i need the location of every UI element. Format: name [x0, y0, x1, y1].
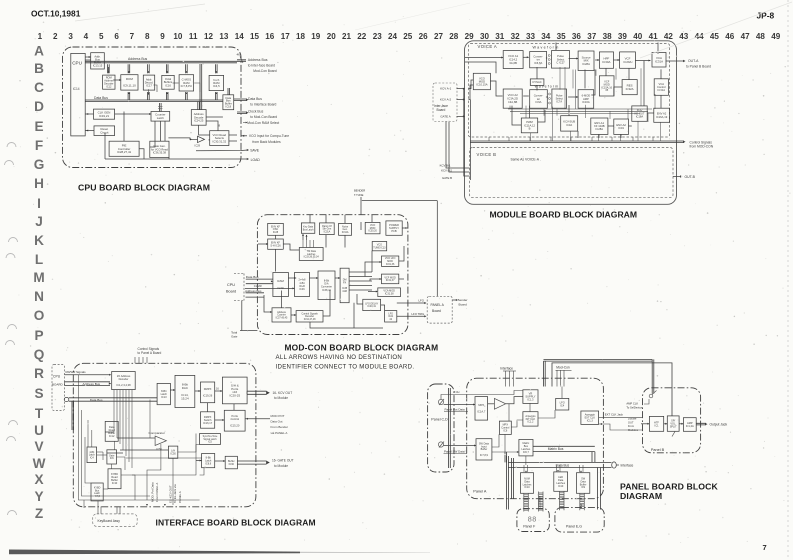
panel amp: [683, 418, 696, 432]
svg-text:IC34,47,48: IC34,47,48: [304, 318, 316, 321]
VCA control: [654, 79, 668, 96]
ribbon cable NUM to Panel F: [524, 493, 529, 511]
8-bit latch: [157, 383, 170, 404]
svg-text:12: 12: [204, 32, 214, 41]
counter latch: [151, 112, 170, 122]
svg-text:11: 11: [189, 32, 198, 41]
4-bit latch: [87, 447, 97, 463]
control signals decoder: [296, 311, 323, 322]
svg-text:LOAD: LOAD: [251, 158, 261, 162]
svg-text:IC10,15A: IC10,15A: [476, 83, 487, 87]
svg-text:via PANEL A: via PANEL A: [271, 431, 288, 435]
svg-text:49: 49: [771, 32, 781, 41]
svg-text:IC1,3: IC1,3: [587, 420, 594, 423]
svg-text:To SelDevice: To SelDevice: [626, 406, 642, 410]
svg-text:43: 43: [679, 32, 689, 41]
DYNAC: [530, 79, 544, 86]
svg-text:C: C: [34, 80, 44, 95]
SW data input buffer: [476, 439, 492, 460]
svg-text:8: 8: [219, 124, 221, 128]
svg-text:30: 30: [480, 32, 490, 41]
punch hole arcs left edge: [7, 143, 16, 148]
8-bit latch2 wires: [196, 460, 202, 462]
svg-text:IC1A,7: IC1A,7: [477, 409, 486, 413]
svg-text:Waveform: Waveform: [535, 85, 560, 89]
VR supply: [523, 390, 538, 404]
clock generator: [94, 109, 115, 119]
svg-text:IC6: IC6: [110, 457, 115, 460]
svg-text:Panel F: Panel F: [523, 525, 535, 529]
pulse select 1: [552, 51, 570, 69]
ENV KE OUT: [632, 106, 647, 121]
Voice B dashed box: [470, 148, 674, 198]
VCO MOD modcon: [365, 222, 380, 233]
svg-text:IC5: IC5: [208, 441, 212, 444]
OUT-A arrow: [666, 60, 684, 62]
svg-text:MOD-CON BOARD BLOCK DIAGRAM: MOD-CON BOARD BLOCK DIAGRAM: [285, 342, 439, 352]
svg-text:PANEL A: PANEL A: [431, 303, 445, 307]
svg-text:IC10: IC10: [558, 485, 564, 488]
svg-text:1: 1: [38, 32, 43, 41]
svg-text:Gate: Gate: [231, 334, 238, 338]
svg-text:Mod-Con: Mod-Con: [556, 365, 570, 369]
pot wire: [444, 404, 475, 406]
svg-text:VOICE B: VOICE B: [477, 152, 497, 157]
svg-text:19: 19: [311, 32, 321, 41]
svg-text:35: 35: [557, 32, 567, 41]
svg-text:IC31A: IC31A: [324, 230, 331, 233]
6-mod amp: [578, 90, 594, 109]
CPU IC14: [71, 53, 85, 135]
split switch mark: [672, 432, 675, 437]
MPX: [475, 397, 488, 421]
Module board outline: [465, 41, 677, 205]
counter decoder wires: [281, 291, 283, 308]
Panel E,G outline: [555, 507, 604, 532]
Panel A outline: [467, 378, 604, 499]
cpu right exit data bus: [237, 99, 247, 101]
ENV KF S-H: [268, 239, 284, 249]
svg-text:V: V: [34, 439, 43, 454]
ribbon cable LED to Panel E,G: [560, 491, 565, 510]
svg-text:IC31,38: IC31,38: [385, 293, 394, 296]
svg-text:3A,6B: 3A,6B: [509, 61, 517, 65]
svg-text:IC15,20: IC15,20: [230, 423, 240, 427]
ROM address decoder: [103, 75, 115, 89]
address decoder IC17: [143, 75, 154, 90]
CPU board dashed bracket: [234, 273, 244, 275]
data bus pipe: [508, 462, 612, 467]
svg-text:T.TUNE: T.TUNE: [354, 193, 364, 197]
DMPX switch: [201, 412, 215, 428]
bottom edge exit arrows: [146, 504, 148, 506]
wire bender t.tune across to panel A: [362, 200, 438, 202]
address decoder IC24: [191, 110, 206, 126]
power supply out: [402, 227, 408, 229]
svg-text:IC3A: IC3A: [566, 123, 572, 127]
svg-text:88: 88: [528, 515, 537, 524]
svg-text:C IC27: C IC27: [556, 61, 565, 65]
svg-text:MOD. Pot Data: MOD. Pot Data: [151, 482, 155, 502]
key data latch: [301, 223, 314, 233]
svg-text:IC1,3: IC1,3: [527, 398, 534, 402]
2ch wire to VR supply: [441, 391, 523, 400]
KCV input dashed box: [433, 83, 457, 122]
sw wire: [444, 445, 476, 447]
16-gate out pipe arrow: [237, 461, 266, 464]
cpu right exit clock bus: [237, 112, 247, 114]
arpeggio int clk: [523, 412, 538, 426]
address bus: [85, 61, 237, 63]
pulse select 2: [552, 89, 567, 108]
svg-text:Panel B: Panel B: [651, 448, 665, 452]
svg-text:20: 20: [327, 32, 337, 41]
svg-text:2 CH: 2 CH: [454, 390, 460, 394]
svg-text:Interface: Interface: [621, 464, 634, 468]
interface connector right: [612, 462, 617, 468]
modcon right wires: [399, 246, 404, 261]
svg-text:38: 38: [603, 32, 613, 41]
counter latch wires: [160, 103, 162, 112]
svg-text:A: A: [34, 43, 44, 58]
svg-text:E: E: [34, 119, 43, 134]
svg-text:13A,6B: 13A,6B: [508, 100, 517, 104]
ENV KF OSC: [268, 223, 284, 235]
svg-text:IC32A: IC32A: [626, 87, 634, 91]
svg-text:U: U: [34, 423, 44, 438]
MPX control: [499, 421, 511, 434]
panel B wires: [664, 423, 668, 425]
matrix bus pipe: [533, 446, 595, 451]
vol split: [667, 416, 679, 431]
svg-text:IC18: IC18: [226, 105, 232, 109]
matrix bus latches: [519, 440, 533, 456]
svg-text:IC30,31,32: IC30,31,32: [212, 139, 226, 143]
PIE controller: [109, 141, 139, 156]
svg-text:GATE B: GATE B: [442, 176, 452, 180]
voice A verticals to control bus: [488, 137, 490, 141]
KCV B wires: [446, 122, 470, 169]
svg-text:IC4: IC4: [90, 456, 94, 459]
modcon ENV KF S-H left entry: [258, 243, 268, 245]
svg-text:IC12: IC12: [109, 434, 115, 438]
svg-text:IC28A: IC28A: [596, 127, 604, 131]
svg-text:LFO: LFO: [419, 299, 425, 303]
module vertical drops: [509, 106, 511, 109]
svg-text:W: W: [33, 456, 46, 471]
svg-text:7: 7: [130, 32, 135, 41]
svg-text:IC20-25: IC20-25: [229, 394, 240, 398]
svg-text:IC6: IC6: [503, 430, 508, 433]
svg-text:N: N: [34, 289, 44, 304]
svg-text:B: B: [529, 126, 531, 130]
TM data latches: [299, 248, 323, 261]
VCO tune: [372, 242, 387, 251]
svg-text:MPX: MPX: [478, 403, 484, 407]
svg-text:39: 39: [618, 32, 628, 41]
svg-text:IC29A: IC29A: [623, 60, 631, 64]
cpu to addr buffer link: [85, 56, 91, 58]
Panel F outline: [517, 509, 549, 532]
svg-text:21: 21: [342, 32, 352, 41]
svg-text:IC4: IC4: [560, 404, 565, 408]
long vertical pair through row: [200, 64, 202, 110]
svg-text:BENDER: BENDER: [354, 188, 365, 192]
vco read select wires: [168, 138, 190, 139]
ENV-A2: [614, 119, 629, 134]
control signals bus: [470, 141, 684, 143]
svg-text:G: G: [34, 157, 45, 172]
svg-text:IC28,27,41: IC28,27,41: [117, 150, 132, 154]
bottom scan shadow bar: [9, 550, 300, 555]
svg-text:5: 5: [99, 32, 104, 41]
svg-text:31: 31: [495, 32, 505, 41]
svg-text:34: 34: [541, 32, 551, 41]
svg-text:KCV B-2: KCV B-2: [441, 169, 452, 173]
svg-text:DMPX: DMPX: [204, 387, 212, 391]
decoder output fan: [113, 390, 115, 432]
svg-text:VCO Input for Compu-Tune: VCO Input for Compu-Tune: [249, 134, 289, 138]
S/H ports: [222, 377, 247, 404]
svg-text:CPU: CPU: [53, 375, 61, 379]
waveform converter 2: [530, 90, 548, 109]
panel CD internal bus: [449, 388, 451, 468]
svg-text:IC16A,19: IC16A,19: [656, 115, 668, 119]
svg-text:IC1: IC1: [654, 423, 659, 427]
rom addr decoder link: [107, 67, 109, 73]
svg-text:IC7A: IC7A: [556, 100, 562, 104]
svg-text:IC7,8,PU: IC7,8,PU: [181, 84, 192, 88]
svg-text:ALL ARROWS HAVING NO DESTINATI: ALL ARROWS HAVING NO DESTINATION: [276, 354, 403, 361]
svg-text:IC13,15: IC13,15: [93, 63, 103, 67]
svg-text:IC19,21: IC19,21: [99, 114, 110, 118]
svg-text:VOICE A: VOICE A: [478, 44, 498, 49]
bottom rail: [105, 158, 241, 160]
svg-text:PX: PX: [343, 282, 347, 285]
svg-text:From PANEL A: From PANEL A: [155, 483, 159, 502]
svg-text:13: 13: [219, 32, 229, 41]
svg-text:From Bender: From Bender: [271, 425, 289, 429]
svg-text:16: 16: [216, 388, 219, 391]
svg-text:42: 42: [664, 32, 674, 41]
waveform converter 1: [530, 52, 547, 68]
extra keyboard section wires: [85, 437, 91, 483]
panel amp triangle: [494, 398, 505, 409]
svg-text:41M: 41M: [342, 290, 347, 293]
16-KCV out pipe arrow: [247, 391, 266, 394]
mod pot data in: [245, 418, 270, 420]
svg-text:KeyBoard Assy: KeyBoard Assy: [98, 519, 121, 523]
svg-text:Q: Q: [34, 347, 45, 362]
DMPX interface: [201, 382, 215, 403]
8-bit DA converter: [318, 271, 335, 300]
svg-text:37: 37: [587, 32, 597, 41]
svg-text:45: 45: [710, 32, 720, 41]
svg-text:26: 26: [419, 32, 429, 41]
KYBD read buffer: [108, 469, 121, 489]
svg-text:8: 8: [145, 32, 150, 41]
svg-text:CPU BOARD BLOCK DIAGRAM: CPU BOARD BLOCK DIAGRAM: [78, 183, 210, 193]
svg-text:Waveform: Waveform: [533, 46, 560, 50]
svg-text:IC4,5: IC4,5: [213, 84, 220, 88]
svg-text:KCV A-1: KCV A-1: [440, 87, 451, 91]
LED data latches: [554, 472, 568, 491]
svg-text:PANEL A: PANEL A: [178, 491, 182, 503]
modcon data bus pipe entry: [246, 279, 273, 284]
right edge scan line: [787, 0, 789, 560]
VCF MOD modcon: [382, 274, 399, 284]
svg-text:Board: Board: [459, 303, 468, 307]
interface address bus pipe: [65, 382, 111, 386]
svg-text:46: 46: [237, 53, 241, 57]
interface internal verticals: [149, 400, 151, 439]
svg-text:MODULE BOARD BLOCK DIAGRAM: MODULE BOARD BLOCK DIAGRAM: [490, 209, 638, 219]
module internal wires: [465, 57, 503, 59]
svg-text:Comparator: Comparator: [149, 431, 165, 435]
svg-text:R: R: [34, 366, 44, 381]
svg-text:IC40,41: IC40,41: [368, 305, 377, 308]
svg-text:IC14: IC14: [73, 87, 80, 91]
svg-text:MOD POT: MOD POT: [271, 414, 285, 418]
svg-text:K: K: [34, 233, 44, 248]
svg-text:Data Bus: Data Bus: [94, 96, 108, 100]
data read buffer: [105, 421, 118, 441]
svg-text:29: 29: [465, 32, 475, 41]
svg-text:IC6,7: IC6,7: [523, 451, 530, 454]
svg-text:EXT CLK Jack: EXT CLK Jack: [605, 413, 624, 417]
DMPX modcon: [340, 268, 349, 303]
svg-text:IC17: IC17: [146, 84, 152, 88]
svg-text:IC9,11,10: IC9,11,10: [123, 84, 136, 88]
svg-text:25: 25: [403, 32, 413, 41]
interface CPU board dashed box: [52, 365, 65, 411]
addr decode wires: [198, 102, 200, 110]
svg-text:Data Bus: Data Bus: [90, 398, 103, 402]
data bus buffer wires: [228, 88, 230, 95]
svg-text:28: 28: [449, 32, 459, 41]
svg-text:Address Bus: Address Bus: [128, 57, 148, 61]
HTF IC1: [649, 416, 663, 431]
svg-text:to Inter-face Board: to Inter-face Board: [248, 63, 275, 67]
svg-text:CPU: CPU: [227, 283, 235, 287]
svg-text:IC50: IC50: [170, 453, 176, 456]
svg-text:Panel A: Panel A: [473, 490, 487, 494]
reset circuit: [94, 126, 115, 136]
svg-text:32: 32: [511, 32, 521, 41]
svg-text:14: 14: [235, 32, 245, 41]
svg-text:Y: Y: [34, 489, 43, 504]
ROM IC9-11: [121, 75, 138, 90]
RES: [622, 80, 637, 95]
svg-text:X: X: [34, 472, 43, 487]
svg-text:Bus Latch: Bus Latch: [303, 228, 314, 231]
svg-text:ROM: ROM: [126, 77, 134, 81]
Panel B feed wires from top: [544, 359, 653, 361]
svg-text:IC7,8,9: IC7,8,9: [480, 454, 489, 457]
svg-text:J: J: [35, 214, 43, 229]
gate generator: [150, 141, 169, 157]
stubs to data bus: [128, 92, 130, 100]
VCO A1: [503, 51, 523, 69]
KCV-SUB: [561, 116, 578, 131]
ports control: [224, 410, 245, 431]
source mix: [578, 51, 594, 71]
svg-text:RAM: RAM: [277, 279, 284, 283]
keyboard wires: [97, 507, 99, 514]
svg-text:Double: Double: [628, 417, 637, 421]
svg-text:IC6A: IC6A: [536, 100, 542, 104]
svg-text:EX-KCV OUT: EX-KCV OUT: [169, 485, 173, 503]
RAM modcon: [273, 273, 289, 297]
IO address decoder: [112, 372, 136, 390]
svg-text:Circuit: Circuit: [100, 130, 108, 134]
svg-text:Z: Z: [35, 506, 43, 521]
Panel B outline: [643, 388, 701, 453]
svg-text:17: 17: [281, 32, 291, 41]
arpeggio ext clk: [581, 411, 599, 424]
svg-text:IC28: IC28: [273, 231, 279, 234]
VCO MOD: [473, 73, 490, 89]
L-H latch: [168, 446, 177, 458]
noise generator: [339, 223, 352, 235]
SW data buffer: [577, 473, 590, 494]
svg-text:IC18A: IC18A: [636, 115, 644, 119]
Voice A dashed box: [469, 44, 670, 138]
svg-text:IC31A: IC31A: [655, 60, 663, 64]
octal buffers: [162, 75, 174, 89]
svg-text:IC51: IC51: [157, 447, 163, 451]
ramp generator: [320, 223, 335, 235]
svg-text:PANEL BOARD BLOCK: PANEL BOARD BLOCK: [620, 481, 719, 491]
svg-text:IC30,20: IC30,20: [368, 230, 377, 233]
8-bit DAC: [175, 375, 195, 407]
8-bit latch 2: [202, 454, 215, 468]
svg-text:OCT.10,1981: OCT.10,1981: [31, 9, 81, 19]
svg-text:to Interface Board: to Interface Board: [250, 103, 276, 107]
svg-text:IC31A: IC31A: [658, 88, 666, 92]
svg-text:I: I: [37, 196, 41, 211]
svg-text:6: 6: [114, 32, 119, 41]
svg-text:OUT: OUT: [628, 420, 634, 424]
data bus buffer: [223, 95, 234, 110]
svg-text:Decoder: Decoder: [119, 377, 129, 381]
svg-text:IC12: IC12: [106, 85, 112, 88]
data bus: [85, 100, 223, 102]
svg-text:Board: Board: [226, 290, 236, 294]
work RAM: [209, 75, 224, 90]
ENV A2 right: [654, 108, 670, 122]
ribbon cable SW to Panel E,G: [580, 493, 585, 510]
svg-text:TUNE IC13: TUNE IC13: [373, 246, 386, 249]
svg-text:to Module: to Module: [274, 464, 288, 468]
VCO LFO MOD: [382, 256, 399, 266]
svg-text:GATE A: GATE A: [440, 115, 450, 119]
svg-text:PCB: PCB: [391, 229, 397, 233]
svg-text:9: 9: [160, 32, 165, 41]
HPF: [599, 52, 613, 68]
svg-text:KCV B-1: KCV B-1: [440, 164, 451, 168]
svg-text:IC31,37: IC31,37: [386, 279, 395, 282]
synchro-tone latch: [200, 434, 221, 445]
svg-text:Buffer: Buffer: [481, 448, 488, 451]
module upper vertical drops: [572, 70, 574, 89]
svg-text:IC19,26: IC19,26: [203, 393, 213, 397]
VCF MOD: [599, 76, 614, 96]
address counter: [272, 308, 291, 322]
4-bit WR: [295, 273, 310, 297]
top exits to panel A: [134, 357, 136, 363]
svg-text:16: 16: [265, 32, 275, 41]
